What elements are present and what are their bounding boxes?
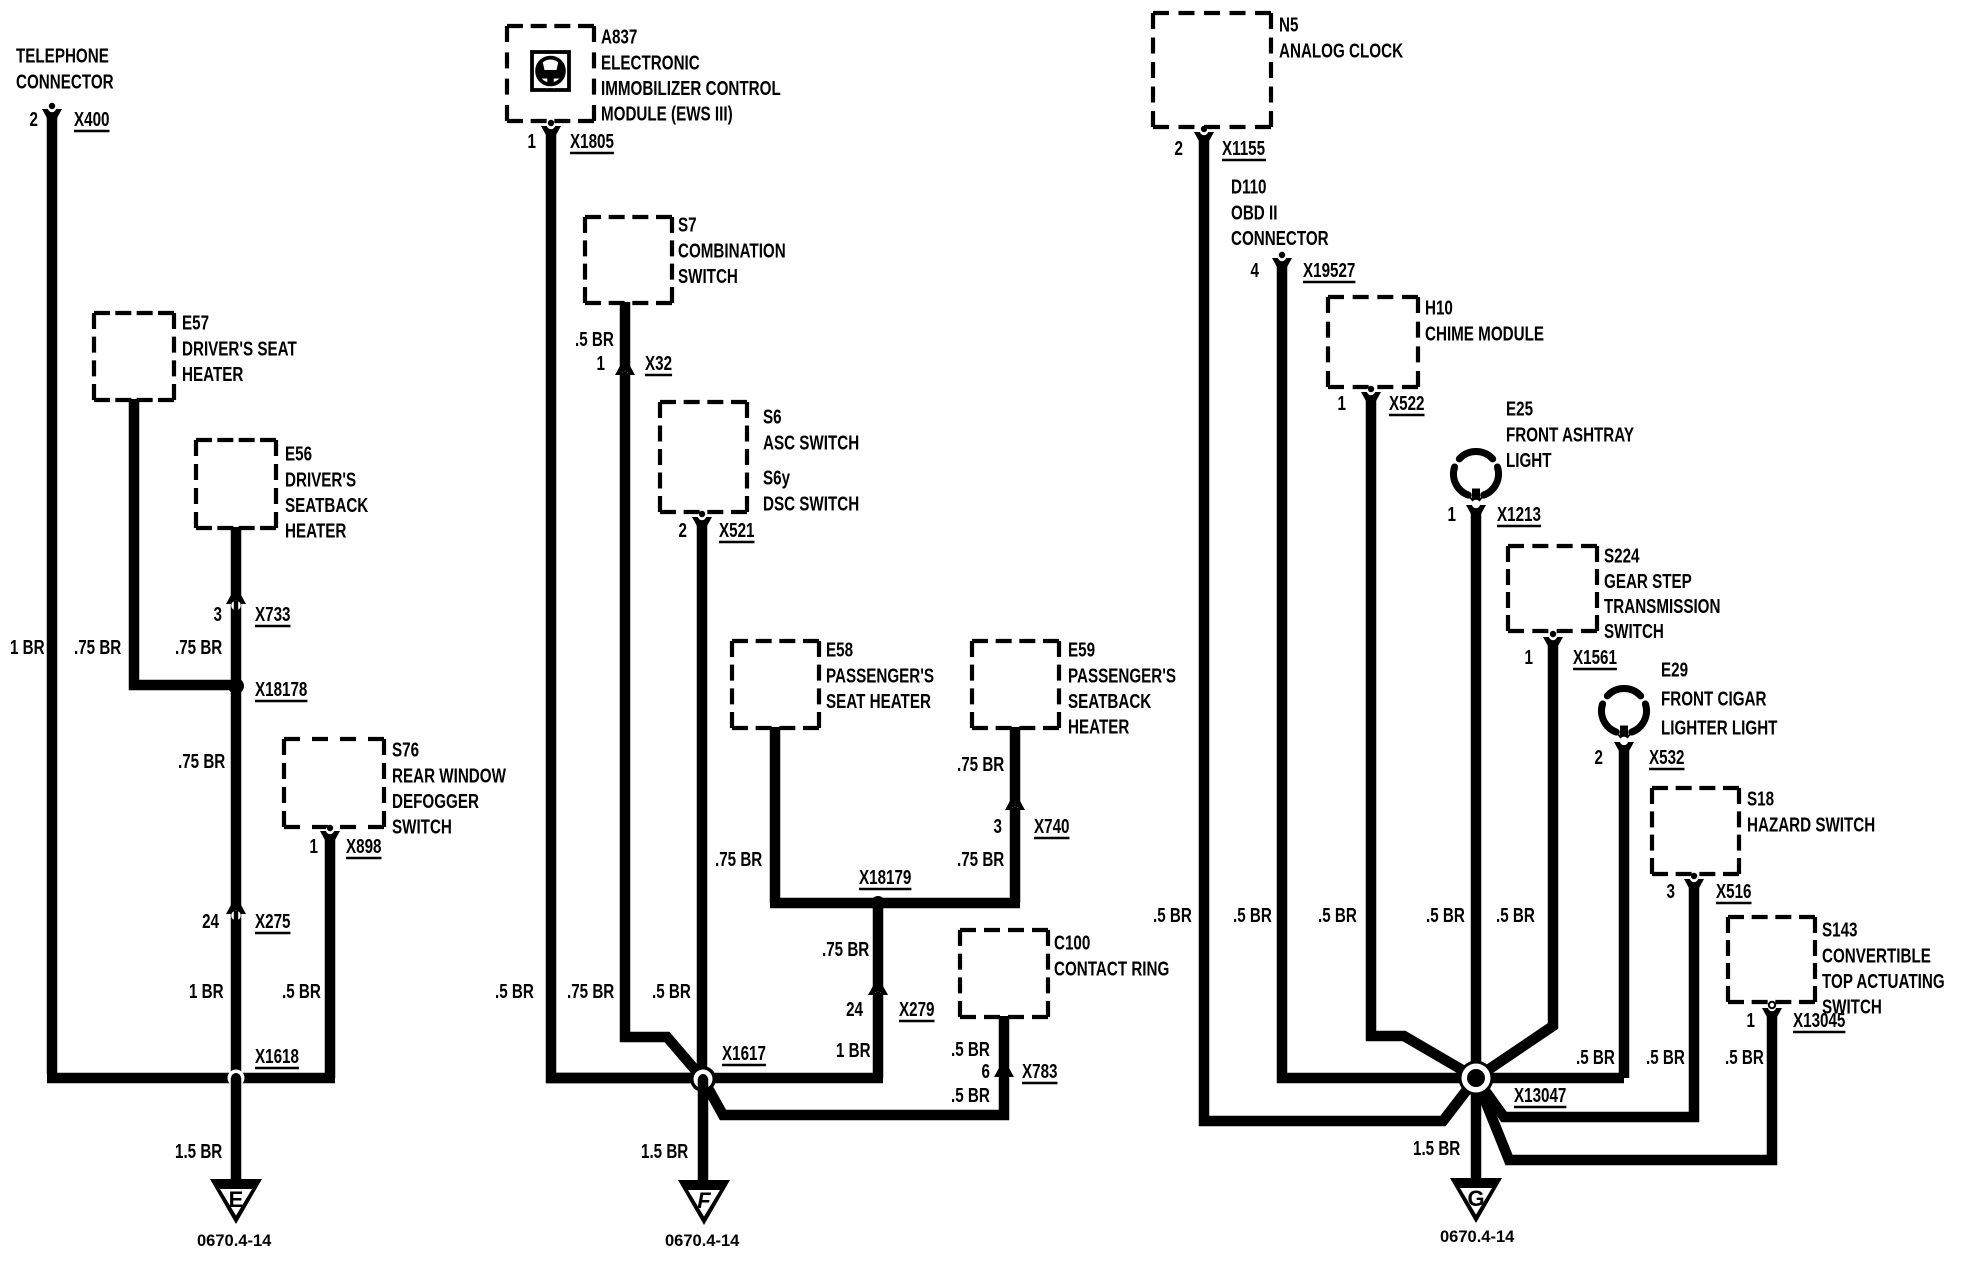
junction X1618 ring	[228, 1070, 245, 1087]
connector X13045 arrow	[1762, 1002, 1782, 1018]
svg-text:X1155: X1155	[1222, 137, 1265, 160]
label A837 ELECTRONIC IMMOBILIZER CONTROL MODULE (EWS III)	[601, 26, 781, 126]
icon A837 steering-wheel symbol	[532, 52, 569, 90]
wire .5 BR from E25 down to X13047 and ground G	[1471, 509, 1482, 1181]
label X898	[346, 835, 382, 858]
svg-text:FRONT ASHTRAY: FRONT ASHTRAY	[1506, 423, 1634, 446]
svg-text:ELECTRONIC: ELECTRONIC	[601, 51, 700, 74]
connector X32 in-line arrow	[615, 365, 635, 383]
pin 1 at X13045	[1747, 1009, 1756, 1032]
connector X522 arrow	[1361, 386, 1381, 402]
svg-text:OBD II: OBD II	[1231, 201, 1277, 224]
connector X740 in-line arrow	[1005, 800, 1025, 818]
svg-text:1.5 BR: 1.5 BR	[175, 1140, 222, 1163]
label X522	[1389, 392, 1425, 415]
wire X400 1 BR vertical from telephone connector down to X1618 bus	[47, 112, 58, 1074]
svg-text:2: 2	[30, 108, 39, 131]
svg-text:H10: H10	[1425, 297, 1453, 320]
label X783	[1022, 1060, 1058, 1083]
svg-text:E29: E29	[1661, 659, 1688, 682]
label X400	[74, 108, 110, 131]
svg-text:1.5 BR: 1.5 BR	[1413, 1137, 1460, 1160]
label .5 BR above X32	[575, 328, 614, 351]
pin 1 at X898	[310, 835, 319, 858]
svg-text:0670.4-14: 0670.4-14	[665, 1232, 740, 1250]
svg-text:X783: X783	[1022, 1060, 1058, 1083]
pin 2 at X521	[679, 519, 688, 542]
label X516	[1716, 880, 1752, 903]
component E58 PASSENGER'S SEAT HEATER box	[732, 641, 819, 728]
label E59 PASSENGER'S SEATBACK HEATER	[1068, 639, 1176, 739]
wire lower bus from X1617 to C100 branch	[703, 1079, 1009, 1115]
label .75 BR below X740	[957, 848, 1004, 871]
svg-text:CONNECTOR: CONNECTOR	[1231, 227, 1329, 250]
label .75 BR below X18178	[178, 750, 225, 773]
label .5 BR on E29 wire	[1576, 1046, 1615, 1069]
svg-text:1 BR: 1 BR	[189, 980, 224, 1003]
svg-text:.5 BR: .5 BR	[1153, 904, 1192, 927]
svg-text:SEAT HEATER: SEAT HEATER	[826, 690, 931, 713]
svg-text:DEFOGGER: DEFOGGER	[392, 790, 479, 813]
lamp icon E29	[1601, 688, 1646, 742]
label .5 BR on A837 wire	[495, 980, 534, 1003]
wire .75 BR from E57 down then right to X18178	[134, 399, 236, 685]
label .75 BR below X18179	[822, 938, 869, 961]
label .5 BR on D110 wire	[1233, 904, 1272, 927]
ground E symbol	[210, 1179, 262, 1224]
svg-text:E56: E56	[285, 443, 312, 466]
junction X1617 ring	[690, 1066, 716, 1092]
svg-text:1: 1	[1525, 646, 1534, 669]
svg-text:DRIVER'S: DRIVER'S	[285, 468, 356, 491]
label .5 BR on E25 wire	[1426, 904, 1465, 927]
svg-text:.75 BR: .75 BR	[957, 848, 1004, 871]
svg-text:2: 2	[679, 519, 688, 542]
wire 1 BR from X279 down to X1617 bus	[873, 993, 884, 1078]
svg-text:D110: D110	[1231, 176, 1267, 199]
svg-text:S224: S224	[1604, 545, 1640, 568]
svg-text:PASSENGER'S: PASSENGER'S	[826, 664, 934, 687]
component N5 ANALOG CLOCK box	[1153, 13, 1271, 127]
svg-text:.5 BR: .5 BR	[1426, 904, 1465, 927]
svg-text:N5: N5	[1279, 14, 1299, 37]
label H10 CHIME MODULE	[1425, 297, 1544, 345]
label .5 BR above X783	[951, 1038, 990, 1061]
pin 2 at X400	[30, 108, 39, 131]
svg-text:G: G	[1467, 1186, 1484, 1211]
svg-text:X18179: X18179	[859, 866, 911, 889]
svg-text:S76: S76	[392, 739, 419, 762]
pin 24 at X279	[846, 998, 863, 1021]
wire .75 BR from E59 down to X740	[1010, 727, 1021, 802]
svg-text:.5 BR: .5 BR	[1318, 904, 1357, 927]
connector X532 arrow	[1614, 737, 1634, 752]
label X1617	[722, 1042, 766, 1065]
svg-text:MODULE (EWS III): MODULE (EWS III)	[601, 103, 733, 126]
svg-text:3: 3	[994, 815, 1003, 838]
svg-text:X521: X521	[719, 519, 755, 542]
label X13047	[1514, 1084, 1566, 1107]
label .75 BR above X733	[175, 636, 222, 659]
label N5 ANALOG CLOCK	[1279, 14, 1403, 62]
label E57 DRIVER'S SEAT HEATER	[182, 312, 297, 386]
svg-text:HAZARD SWITCH: HAZARD SWITCH	[1747, 813, 1875, 836]
svg-text:X1561: X1561	[1573, 646, 1617, 669]
pin 6 at X783	[982, 1060, 991, 1083]
component S7 COMBINATION SWITCH box	[585, 217, 672, 303]
svg-text:2: 2	[1595, 746, 1604, 769]
svg-text:TELEPHONE: TELEPHONE	[16, 45, 109, 68]
wire 1.5 BR from X1618 down to ground E	[231, 1078, 242, 1181]
svg-text:PASSENGER'S: PASSENGER'S	[1068, 664, 1176, 687]
label X1561	[1573, 646, 1617, 669]
svg-text:S7: S7	[678, 214, 697, 237]
svg-text:REAR WINDOW: REAR WINDOW	[392, 764, 506, 787]
label X532	[1649, 746, 1685, 769]
svg-text:HEATER: HEATER	[1068, 716, 1129, 739]
label X32	[645, 352, 672, 375]
wire .75 BR from E58 down to X18179 bus	[770, 727, 781, 903]
svg-text:X733: X733	[255, 603, 291, 626]
svg-text:S6: S6	[763, 406, 782, 429]
svg-text:HEATER: HEATER	[182, 363, 243, 386]
svg-text:1: 1	[1338, 392, 1347, 415]
label X1213	[1497, 503, 1541, 526]
pin 1 at X522	[1338, 392, 1347, 415]
svg-text:.5 BR: .5 BR	[1725, 1046, 1764, 1069]
label D110 OBD II CONNECTOR	[1231, 176, 1329, 250]
svg-text:S6y: S6y	[763, 467, 790, 490]
label 0670.4-14 middle	[665, 1232, 740, 1250]
svg-text:.5 BR: .5 BR	[575, 328, 614, 351]
svg-text:X13045: X13045	[1793, 1009, 1845, 1032]
svg-text:.5 BR: .5 BR	[1496, 904, 1535, 927]
label X18178	[255, 678, 307, 701]
wire .75 BR from X740 down to X18179 bus	[1010, 808, 1021, 903]
svg-text:SEATBACK: SEATBACK	[285, 494, 368, 517]
svg-text:F: F	[697, 1188, 711, 1213]
svg-text:S143: S143	[1822, 919, 1858, 942]
svg-text:E58: E58	[826, 639, 853, 662]
label 1.5 BR left	[175, 1140, 222, 1163]
svg-text:X32: X32	[645, 352, 672, 375]
label 1 BR on X400 wire	[10, 636, 45, 659]
svg-text:.5 BR: .5 BR	[1576, 1046, 1615, 1069]
svg-text:1: 1	[528, 130, 537, 153]
label .5 BR below X783	[951, 1084, 990, 1107]
label 1.5 BR middle	[641, 1140, 688, 1163]
svg-text:CONNECTOR: CONNECTOR	[16, 70, 114, 93]
component E59 PASSENGER'S SEATBACK HEATER box	[972, 641, 1059, 728]
label X13045	[1793, 1009, 1845, 1032]
svg-text:ASC SWITCH: ASC SWITCH	[763, 431, 859, 454]
component C100 CONTACT RING box	[960, 930, 1048, 1017]
ground F symbol	[678, 1180, 730, 1225]
svg-text:.75 BR: .75 BR	[567, 980, 614, 1003]
label S224 GEAR STEP TRANSMISSION SWITCH	[1604, 545, 1720, 643]
svg-text:X1805: X1805	[570, 130, 614, 153]
junction X18179 dot	[871, 896, 885, 910]
svg-text:E: E	[229, 1187, 244, 1212]
svg-text:24: 24	[846, 998, 863, 1021]
svg-text:X898: X898	[346, 835, 382, 858]
label E56 DRIVER'S SEATBACK HEATER	[285, 443, 368, 543]
svg-text:X275: X275	[255, 910, 291, 933]
svg-text:4: 4	[1251, 259, 1260, 282]
connector X516 arrow	[1684, 873, 1704, 889]
svg-text:.75 BR: .75 BR	[74, 636, 121, 659]
wire .5 BR from E29 down to X13047 bus	[1619, 746, 1630, 1078]
label TELEPHONE CONNECTOR	[16, 45, 114, 93]
svg-text:E57: E57	[182, 312, 209, 335]
label X19527	[1303, 259, 1355, 282]
label X275	[255, 910, 291, 933]
svg-text:TOP ACTUATING: TOP ACTUATING	[1822, 970, 1945, 993]
label 0670.4-14 left	[197, 1232, 272, 1250]
label X279	[899, 998, 935, 1021]
svg-text:X516: X516	[1716, 880, 1752, 903]
svg-text:SWITCH: SWITCH	[1604, 620, 1664, 643]
label .5 BR on S224 wire	[1496, 904, 1535, 927]
svg-text:3: 3	[214, 603, 223, 626]
wire .5 BR from S6 down to X1617	[697, 520, 708, 1078]
component S76 REAR WINDOW DEFOGGER SWITCH box	[284, 739, 384, 827]
ground G symbol	[1450, 1178, 1502, 1223]
wire .5 BR from S224 down then diagonal to X13047	[1476, 640, 1553, 1078]
label X740	[1034, 815, 1070, 838]
component E57 DRIVER'S SEAT HEATER box	[94, 313, 174, 400]
svg-text:TRANSMISSION: TRANSMISSION	[1604, 595, 1720, 618]
component S143 CONVERTIBLE TOP ACTUATING SWITCH box	[1728, 917, 1815, 1002]
connector X400 arrow	[42, 103, 62, 119]
label X733	[255, 603, 291, 626]
label E29 FRONT CIGAR LIGHTER LIGHT	[1661, 659, 1778, 740]
svg-text:.5 BR: .5 BR	[282, 980, 321, 1003]
svg-text:X740: X740	[1034, 815, 1070, 838]
svg-text:C100: C100	[1054, 932, 1090, 955]
svg-text:6: 6	[982, 1060, 991, 1083]
svg-text:DSC SWITCH: DSC SWITCH	[763, 492, 859, 515]
svg-text:GEAR STEP: GEAR STEP	[1604, 570, 1692, 593]
label .5 BR on H10 wire	[1318, 904, 1357, 927]
svg-text:.5 BR: .5 BR	[495, 980, 534, 1003]
svg-text:X1617: X1617	[722, 1042, 766, 1065]
svg-text:E25: E25	[1506, 398, 1533, 421]
component H10 CHIME MODULE box	[1328, 297, 1418, 387]
connector X1805 arrow	[541, 120, 561, 136]
svg-text:1: 1	[310, 835, 319, 858]
pin 3 at X740	[994, 815, 1003, 838]
wire X1618 horizontal bus	[47, 1073, 335, 1084]
wire X1617 horizontal bus	[546, 1073, 883, 1084]
label .75 BR on E57 wire	[74, 636, 121, 659]
svg-text:1 BR: 1 BR	[836, 1039, 871, 1062]
svg-text:X13047: X13047	[1514, 1084, 1566, 1107]
label .5 BR on N5 wire	[1153, 904, 1192, 927]
svg-text:SWITCH: SWITCH	[678, 265, 738, 288]
svg-text:X18178: X18178	[255, 678, 307, 701]
component E56 DRIVER'S SEATBACK HEATER box	[196, 440, 276, 528]
svg-text:CHIME MODULE: CHIME MODULE	[1425, 322, 1544, 345]
label E58 PASSENGER'S SEAT HEATER	[826, 639, 934, 713]
wire X18179 horizontal bus	[770, 898, 1020, 909]
label S7 COMBINATION SWITCH	[678, 214, 786, 288]
svg-text:.5 BR: .5 BR	[1233, 904, 1272, 927]
svg-text:.5 BR: .5 BR	[951, 1084, 990, 1107]
wire .5 BR from S143 down then left to X13047	[1476, 1011, 1772, 1160]
svg-text:X279: X279	[899, 998, 935, 1021]
connector X733 in-line arrow	[226, 594, 246, 612]
wire .5 BR from S18 down then left to X13047	[1476, 882, 1694, 1117]
svg-text:X19527: X19527	[1303, 259, 1355, 282]
connector X279 in-line arrow	[868, 985, 888, 1003]
svg-text:1.5 BR: 1.5 BR	[641, 1140, 688, 1163]
wire 1.5 BR from X1617 down to ground F	[698, 1079, 709, 1181]
connector X1561 arrow	[1543, 631, 1563, 647]
svg-text:CONTACT RING: CONTACT RING	[1054, 957, 1169, 980]
svg-text:X522: X522	[1389, 392, 1425, 415]
label E25 FRONT ASHTRAY LIGHT	[1506, 398, 1634, 472]
label X1155	[1222, 137, 1266, 160]
connector X521 arrow	[692, 511, 712, 527]
svg-text:1 BR: 1 BR	[10, 636, 45, 659]
svg-text:.5 BR: .5 BR	[951, 1038, 990, 1061]
label .75 BR on S7 wire	[567, 980, 614, 1003]
connector X783 in-line arrow	[994, 1067, 1014, 1085]
wire .5 BR from X783 down to lower bus	[999, 1073, 1010, 1120]
svg-text:.75 BR: .75 BR	[822, 938, 869, 961]
svg-text:24: 24	[202, 910, 219, 933]
pin 4 at X19527	[1251, 259, 1260, 282]
component S224 GEAR STEP TRANSMISSION SWITCH box	[1508, 546, 1597, 631]
svg-text:0670.4-14: 0670.4-14	[197, 1232, 272, 1250]
svg-text:LIGHTER LIGHT: LIGHTER LIGHT	[1661, 717, 1778, 740]
pin 3 at X733	[214, 603, 223, 626]
svg-text:0670.4-14: 0670.4-14	[1440, 1228, 1515, 1246]
svg-text:DRIVER'S SEAT: DRIVER'S SEAT	[182, 337, 297, 360]
connector X1213 arrow	[1466, 500, 1486, 515]
svg-text:1: 1	[1448, 503, 1457, 526]
label .5 BR on S6 wire	[652, 980, 691, 1003]
svg-text:X400: X400	[74, 108, 110, 131]
label .5 BR on S76 wire	[282, 980, 321, 1003]
component A837 ELECTRONIC IMMOBILIZER CONTROL MODULE box	[507, 26, 594, 121]
svg-text:SEATBACK: SEATBACK	[1068, 690, 1151, 713]
svg-text:.5 BR: .5 BR	[652, 980, 691, 1003]
wire .75 BR from E56 down through X733, X18178, X275 to X1618 bus	[231, 527, 242, 1078]
label X521	[719, 519, 755, 542]
junction X13047 ring	[1459, 1061, 1494, 1096]
svg-text:2: 2	[1175, 137, 1184, 160]
junction X18178 dot	[228, 678, 244, 694]
label .5 BR on S143 wire	[1725, 1046, 1764, 1069]
connector X275 in-line arrow on main wire	[226, 904, 246, 922]
wire .5 BR from A837 down then right to X1617	[551, 129, 698, 1078]
pin 1 at X1213	[1448, 503, 1457, 526]
svg-text:LIGHT: LIGHT	[1506, 449, 1552, 472]
svg-text:IMMOBILIZER CONTROL: IMMOBILIZER CONTROL	[601, 77, 781, 100]
connector X1155 arrow	[1194, 126, 1214, 142]
label S18 HAZARD SWITCH	[1747, 788, 1875, 836]
component S18 HAZARD SWITCH box	[1652, 788, 1739, 874]
svg-text:COMBINATION: COMBINATION	[678, 239, 786, 262]
svg-text:X532: X532	[1649, 746, 1685, 769]
svg-text:X1618: X1618	[255, 1045, 299, 1068]
svg-text:.75 BR: .75 BR	[957, 753, 1004, 776]
label C100 CONTACT RING	[1054, 932, 1169, 980]
svg-text:SWITCH: SWITCH	[392, 816, 452, 839]
label S76 REAR WINDOW DEFOGGER SWITCH	[392, 739, 506, 839]
pin 24 at X275	[202, 910, 219, 933]
svg-text:.75 BR: .75 BR	[175, 636, 222, 659]
label X18179	[859, 866, 911, 889]
pin 2 at X1155	[1175, 137, 1184, 160]
svg-text:3: 3	[1667, 880, 1676, 903]
wire .5 BR from D110 down then right to X13047	[1282, 260, 1476, 1078]
label .75 BR above X740	[957, 753, 1004, 776]
wire .5 BR from S76 down to X1618 bus	[325, 834, 336, 1078]
pin 1 at X32	[597, 352, 606, 375]
svg-text:.75 BR: .75 BR	[178, 750, 225, 773]
label .75 BR on E58 wire	[715, 848, 762, 871]
svg-text:1: 1	[597, 352, 606, 375]
component S6 ASC SWITCH / S6y DSC SWITCH box	[660, 402, 747, 512]
svg-text:A837: A837	[601, 26, 637, 49]
wire .5 BR from N5 down, right, diagonal to X13047	[1204, 135, 1476, 1121]
svg-text:FRONT CIGAR: FRONT CIGAR	[1661, 688, 1767, 711]
label S6 ASC SWITCH S6y DSC SWITCH	[763, 406, 859, 454]
label 1 BR below X275	[189, 980, 224, 1003]
wire .5 BR from C100 down to X783	[999, 1016, 1010, 1068]
wire .5 BR from S7 down to X32	[620, 302, 631, 367]
label S143 CONVERTIBLE TOP ACTUATING SWITCH	[1822, 919, 1945, 1019]
label X1805	[570, 130, 614, 153]
pin 3 at X516	[1667, 880, 1676, 903]
svg-text:S18: S18	[1747, 788, 1774, 811]
label 1 BR below X279	[836, 1039, 871, 1062]
pin 1 at X1561	[1525, 646, 1534, 669]
pin 1 at X1805	[528, 130, 537, 153]
svg-text:HEATER: HEATER	[285, 520, 346, 543]
svg-text:1: 1	[1747, 1009, 1756, 1032]
pin 2 at X532	[1595, 746, 1604, 769]
svg-text:X1213: X1213	[1497, 503, 1541, 526]
svg-text:ANALOG CLOCK: ANALOG CLOCK	[1279, 39, 1403, 62]
wire .5 BR from H10 down, right, diagonal to X13047	[1371, 395, 1476, 1078]
label 1.5 BR right	[1413, 1137, 1460, 1160]
svg-text:E59: E59	[1068, 639, 1095, 662]
connector X898 arrow	[320, 825, 340, 841]
label X1618	[255, 1045, 299, 1068]
svg-text:.75 BR: .75 BR	[715, 848, 762, 871]
label .5 BR on S18 wire	[1646, 1046, 1685, 1069]
svg-text:.5 BR: .5 BR	[1646, 1046, 1685, 1069]
wire .75 BR from X18179 down to X279	[873, 903, 884, 987]
wire .75 BR from X32 down then diagonal to X1617	[625, 373, 703, 1079]
label 0670.4-14 right	[1440, 1228, 1515, 1246]
wire bus right of X13047 to E29	[1476, 1073, 1624, 1084]
connector X19527 arrow	[1272, 252, 1292, 268]
svg-text:CONVERTIBLE: CONVERTIBLE	[1822, 944, 1931, 967]
lamp icon E25	[1453, 451, 1498, 505]
